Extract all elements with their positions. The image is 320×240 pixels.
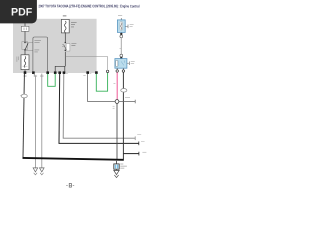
page number <box>66 184 74 186</box>
ignition switch contacts <box>22 42 28 50</box>
junction node <box>115 100 119 104</box>
ground connector box (highlighted) <box>114 164 119 169</box>
pins under relay box <box>117 68 123 70</box>
relay box (highlighted blue) <box>115 59 127 69</box>
wire: green jumper loop (left) <box>48 74 56 87</box>
wire: gray wire to arrow (right) <box>41 74 43 169</box>
relay block shaded panel <box>13 19 97 73</box>
wire: long black wire to ground bus <box>23 74 24 158</box>
pin (green jumper left loop, right leg) <box>54 71 57 74</box>
wire: black wire down, corner right, to tick <box>59 74 139 144</box>
svg-text:PDF: PDF <box>11 6 33 18</box>
wire: gray wire to arrow (left) <box>34 74 36 169</box>
pin (panel bottom right corner) <box>95 71 98 74</box>
pin (middle pair right) <box>63 71 66 74</box>
arrow terminal (left) <box>33 168 38 172</box>
wire: faint feed from panel interior <box>65 57 107 71</box>
page background <box>0 0 149 198</box>
fuse EFI (middle) <box>61 19 69 33</box>
arrow terminal (right) <box>40 168 45 172</box>
wire: junction to right tick <box>119 101 135 103</box>
inline connector rings <box>120 35 123 38</box>
pin (middle pair left) <box>58 71 61 74</box>
PDF badge <box>0 0 37 23</box>
wire: green jumper loop (right) <box>96 73 107 92</box>
ground point stub <box>116 161 118 164</box>
ground arrow <box>116 169 118 170</box>
pin (ignition box left terminal) <box>32 71 35 74</box>
wire: gray wire down, corner right, to tick <box>63 74 135 139</box>
wire: left column down to switch <box>24 32 26 42</box>
wire: dark wire down from relay <box>122 72 124 159</box>
pin (panel right area) <box>86 71 89 74</box>
ground bus line <box>23 158 124 160</box>
ignition switch assembly box <box>33 37 48 72</box>
pin (ignition box right terminal) <box>46 71 49 74</box>
connector label 1C above panel <box>63 15 67 17</box>
wire: down to relay connector <box>120 38 122 55</box>
svg-text:2007 TOYOTA TACOMA (2TR-FE) EN: 2007 TOYOTA TACOMA (2TR-FE) ENGINE CONTR… <box>38 4 139 8</box>
wire: gray wire down to junction <box>88 74 115 102</box>
wire: junction down to ground bus <box>116 103 118 159</box>
inline connector oval on black wire <box>21 94 27 98</box>
wire: left column stub from badge <box>24 23 26 26</box>
fuse box (right, highlighted blue) <box>120 18 122 19</box>
pin (standalone, fed from panel) <box>106 70 108 72</box>
pin (left fuse output) <box>24 71 27 74</box>
wire: relay down with branch <box>55 52 65 72</box>
wire: fuse to pin <box>24 70 26 73</box>
fusible link box (left top) <box>21 26 29 31</box>
wire: left column down to fuse <box>24 51 26 56</box>
inline connector dot below fuse <box>120 33 122 35</box>
fuse AM2 (left) <box>21 55 29 70</box>
wire: switch terminal stubs to ignition box <box>26 42 33 50</box>
wire: pink wire to junction <box>116 72 118 99</box>
inline connector oval on dark wire <box>121 89 127 93</box>
wire: branch right to tick <box>123 153 138 155</box>
wire: fuse to relay contact <box>64 33 66 42</box>
relay contact (middle) <box>65 42 67 44</box>
